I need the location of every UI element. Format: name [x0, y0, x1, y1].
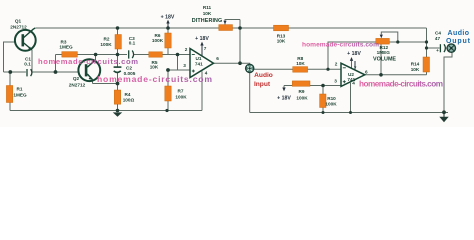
svg-text:6: 6	[216, 56, 219, 61]
svg-text:10K: 10K	[203, 11, 212, 16]
svg-text:3: 3	[334, 78, 337, 83]
svg-text:Q2: Q2	[73, 76, 80, 81]
svg-text:10K: 10K	[150, 65, 159, 70]
svg-text:2: 2	[185, 47, 188, 52]
svg-text:100K: 100K	[296, 95, 308, 100]
svg-text:VOLUME: VOLUME	[373, 57, 396, 63]
svg-text:C2: C2	[126, 65, 132, 70]
svg-text:homemade-circuits.com: homemade-circuits.com	[359, 79, 443, 88]
svg-text:100K: 100K	[325, 102, 337, 107]
svg-text:R7: R7	[178, 89, 184, 94]
svg-text:1MEG: 1MEG	[13, 93, 27, 98]
svg-text:Audio: Audio	[254, 72, 273, 79]
svg-text:R2: R2	[104, 37, 110, 42]
svg-text:Q1: Q1	[15, 18, 22, 23]
svg-text:4: 4	[352, 81, 355, 86]
svg-text:homemade-circuits.com: homemade-circuits.com	[38, 57, 138, 66]
svg-text:R14: R14	[411, 61, 420, 66]
svg-text:Audio: Audio	[448, 30, 470, 37]
svg-text:R4: R4	[125, 92, 131, 97]
svg-text:Input: Input	[254, 81, 271, 88]
svg-text:100K: 100K	[152, 38, 164, 43]
svg-text:R9: R9	[299, 89, 305, 94]
svg-text:0.1: 0.1	[129, 41, 136, 46]
svg-text:2N2712: 2N2712	[69, 83, 86, 88]
svg-text:6: 6	[365, 69, 368, 74]
svg-text:Ouput: Ouput	[446, 38, 471, 45]
svg-text:R11: R11	[203, 5, 212, 10]
svg-text:10K: 10K	[277, 38, 286, 43]
svg-text:R8: R8	[297, 56, 303, 61]
svg-text:741: 741	[195, 62, 203, 67]
svg-text:R10: R10	[327, 96, 336, 101]
svg-text:7: 7	[204, 46, 207, 51]
svg-text:homemade-circuits.com: homemade-circuits.com	[302, 42, 379, 49]
svg-text:100Ω: 100Ω	[123, 98, 135, 103]
svg-text:1MEG: 1MEG	[377, 50, 391, 55]
svg-text:10K: 10K	[411, 67, 420, 72]
svg-text:+ 18V: + 18V	[195, 36, 209, 42]
svg-text:+: +	[436, 48, 439, 53]
svg-text:47: 47	[435, 36, 441, 41]
svg-text:R12: R12	[379, 45, 388, 50]
svg-text:100K: 100K	[175, 95, 187, 100]
svg-text:R1: R1	[17, 87, 23, 92]
svg-text:1MEG: 1MEG	[59, 45, 73, 50]
svg-text:homemade-circuits.com: homemade-circuits.com	[97, 74, 212, 84]
svg-text:7: 7	[354, 65, 357, 70]
svg-text:U1: U1	[196, 56, 202, 61]
svg-text:+ 18V: + 18V	[347, 51, 361, 57]
svg-text:+ 18V: + 18V	[161, 15, 175, 21]
svg-text:0.1: 0.1	[24, 62, 31, 67]
svg-text:DITHERING: DITHERING	[192, 18, 223, 24]
svg-text:2N2712: 2N2712	[10, 24, 27, 29]
svg-text:100K: 100K	[100, 42, 112, 47]
svg-text:+ 18V: + 18V	[277, 95, 291, 101]
svg-text:2: 2	[335, 61, 338, 66]
svg-text:3: 3	[183, 63, 186, 68]
svg-text:10K: 10K	[296, 61, 305, 66]
